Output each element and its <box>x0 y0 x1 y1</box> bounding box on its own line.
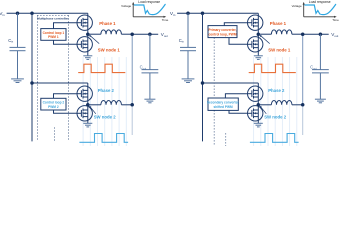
multiphase controller dashed boundary <box>37 16 68 142</box>
right Vin rail wire <box>177 12 258 14</box>
inductor L1 phase1 left <box>101 30 122 34</box>
svg-text:SW node 1: SW node 1 <box>268 48 291 53</box>
ground under Cin left <box>11 79 24 83</box>
left node L1 output junction <box>130 32 134 36</box>
right wire L1 to output node <box>292 33 303 35</box>
wire gate high-side phase1 right <box>224 23 247 26</box>
right Cout ground wire <box>319 73 321 99</box>
right Vout rail wire <box>303 33 329 35</box>
PWM waveform phase1 right <box>249 64 296 72</box>
dotted continuation below secondary box <box>214 110 226 146</box>
right phase2 drain-source column wire <box>257 83 259 123</box>
left load-response graph axes <box>133 4 164 17</box>
right node SW2 <box>257 103 261 107</box>
right output continuation fade <box>302 105 304 135</box>
svg-text:Voltage: Voltage <box>292 4 302 8</box>
right label SW node 2 with arrow <box>260 106 287 120</box>
right wire SW1 to L1 <box>258 33 271 35</box>
left phase1 drain-source column wire <box>87 13 89 56</box>
right faint timing gridlines <box>254 57 297 146</box>
right node L2 output junction <box>301 103 305 107</box>
svg-text:Control loop 1: Control loop 1 <box>43 31 65 35</box>
transistor Q4 low-side phase2 left <box>77 106 92 121</box>
left node L2 output junction <box>130 103 134 107</box>
svg-text:shifted PWM: shifted PWM <box>214 105 233 109</box>
left Vin rail wire <box>7 12 88 14</box>
right load-response graph axes <box>304 4 335 17</box>
capacitor Cin left <box>10 47 26 50</box>
left Cin ground wire <box>17 51 19 79</box>
right wire L2 to output node <box>292 104 303 106</box>
left faint timing gridlines <box>83 57 126 146</box>
svg-text:Primary converter,: Primary converter, <box>209 28 237 32</box>
right node phase2 feed junction <box>201 81 205 85</box>
left label SW node 2 with arrow <box>89 106 116 120</box>
inductor L2 phase2 right <box>271 100 292 104</box>
inductor L1 phase1 right <box>271 30 292 34</box>
right wire SW2 to L2 <box>258 104 271 106</box>
ground under phase1 left <box>83 56 92 60</box>
svg-text:Load response: Load response <box>309 0 331 4</box>
left node phase2 feed junction <box>30 81 34 85</box>
svg-text:Time: Time <box>332 18 339 22</box>
right node Vin-phase2 junction <box>201 12 205 16</box>
control box U3 primary converter <box>208 26 237 38</box>
svg-text:Phase 1: Phase 1 <box>99 21 116 26</box>
right node SW1 <box>257 32 261 36</box>
left wire SW1 to L1 <box>88 33 101 35</box>
dotted sync link primary to secondary <box>213 38 215 98</box>
PWM waveform phase2 right <box>250 134 299 143</box>
left node SW1 <box>86 32 90 36</box>
svg-text:SW node 2: SW node 2 <box>264 114 287 119</box>
transistor Q3 high-side phase2 right <box>248 86 263 101</box>
wire gate high-side phase2 <box>54 94 78 99</box>
transistor Q4 low-side phase2 right <box>248 106 263 121</box>
ground under phase1 right <box>254 56 263 60</box>
svg-text:Voltage: Voltage <box>121 4 131 8</box>
left Cout ground wire <box>149 73 151 99</box>
capacitor Cin right <box>180 47 196 50</box>
right node Cout junction <box>319 32 323 36</box>
left node SW2 <box>86 103 90 107</box>
right output combining wire <box>302 34 304 105</box>
svg-text:Phase 2: Phase 2 <box>98 88 115 93</box>
left phase2 drain-source column wire <box>87 83 89 123</box>
left label SW node 1 with arrow <box>89 35 120 53</box>
svg-text:Multiphase controller: Multiphase controller <box>37 17 69 21</box>
svg-text:PWM 2: PWM 2 <box>48 105 59 109</box>
svg-text:control loop, PWM: control loop, PWM <box>209 32 237 36</box>
right label SW node 1 with arrow <box>260 35 291 53</box>
capacitor Cout left <box>142 70 159 73</box>
svg-text:Secondary converter,: Secondary converter, <box>207 100 240 104</box>
wire gate high-side phase2 right <box>225 94 247 98</box>
transistor Q1 high-side phase1 right <box>248 15 263 30</box>
control box U1 control loop 1 <box>41 29 66 41</box>
ground under Cout left <box>144 99 155 103</box>
wire gate high-side phase1 <box>54 23 78 29</box>
control box U4 secondary converter <box>208 98 238 110</box>
capacitor Cout right <box>312 70 329 73</box>
svg-text:Control loop 2: Control loop 2 <box>43 101 65 105</box>
left wire L1 to output node <box>121 33 132 35</box>
svg-text:Phase 2: Phase 2 <box>268 88 285 93</box>
right phase2 input feed wire <box>203 13 259 141</box>
svg-text:Load response: Load response <box>138 0 160 4</box>
wire gate low-side phase2 <box>54 110 78 113</box>
svg-text:Phase 1: Phase 1 <box>270 21 287 26</box>
wire gate low-side phase2 right <box>229 110 248 113</box>
ground under Cin right <box>182 79 195 83</box>
right Cin ground wire <box>187 51 189 79</box>
left node Vin-phase2 junction <box>30 12 34 16</box>
inductor L2 phase2 left <box>101 100 122 104</box>
right Cin branch wire <box>187 13 189 47</box>
transistor Q3 high-side phase2 left <box>77 86 92 101</box>
ground under phase2 left <box>83 123 92 127</box>
wire gate low-side phase1 <box>54 40 78 44</box>
left graph transient curve <box>134 4 165 14</box>
right graph transient curve <box>305 4 336 14</box>
left wire L2 to output node <box>121 104 132 106</box>
right phase1 drain-source column wire <box>257 13 259 56</box>
left output continuation fade <box>131 105 133 135</box>
wire gate low-side phase1 right <box>229 38 248 45</box>
left wire SW2 to L2 <box>88 104 101 106</box>
transistor Q2 low-side phase1 right <box>248 37 263 52</box>
ground under Cout right <box>315 99 326 103</box>
svg-text:SW node 2: SW node 2 <box>94 114 117 119</box>
svg-text:PWM 1: PWM 1 <box>48 35 59 39</box>
left Cout branch wire <box>149 34 151 69</box>
right Cout branch wire <box>319 34 321 69</box>
PWM waveform phase2 left <box>79 134 128 143</box>
left output combining wire <box>131 34 133 105</box>
svg-text:SW node 1: SW node 1 <box>98 48 121 53</box>
PWM waveform phase1 left <box>78 64 125 72</box>
left phase2 input feed wire <box>32 13 88 141</box>
svg-text:Time: Time <box>162 18 169 22</box>
ground under phase2 right <box>254 123 263 127</box>
transistor Q2 low-side phase1 left <box>77 37 92 52</box>
left Vout rail wire <box>132 33 158 35</box>
right node L1 output junction <box>301 32 305 36</box>
transistor Q1 high-side phase1 left <box>77 15 92 30</box>
left node Cout junction <box>148 32 152 36</box>
left node Vin-Cin junction <box>16 12 20 16</box>
left Cin branch wire <box>17 13 19 47</box>
right node Vin-Cin junction <box>186 12 190 16</box>
control box U2 control loop 2 <box>41 98 66 110</box>
